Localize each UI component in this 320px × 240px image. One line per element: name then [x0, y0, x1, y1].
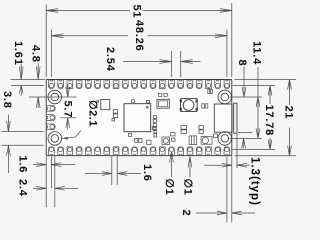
svg-text:21: 21 — [283, 106, 295, 120]
mounting hole bottom-right — [218, 132, 232, 146]
dim 11.4 line+arrows — [257, 67, 259, 97]
svg-text:3.8: 3.8 — [1, 91, 13, 109]
dim 5.7 upper arrow — [67, 85, 69, 87]
dim 3.8 line1 — [2, 131, 44, 133]
dim 51: board length, extension lines — [45, 5, 47, 78]
BOOTSEL button — [180, 100, 198, 111]
label dia-2.1 leader w/ filled arrow — [62, 137, 68, 140]
mounting hole bottom-left — [48, 132, 62, 146]
svg-text:17.78: 17.78 — [263, 105, 275, 137]
mounting hole top-left — [48, 90, 62, 104]
dim 21 line+arrows — [288, 80, 292, 90]
usb-bottom extension — [238, 132, 252, 134]
dim 2 line+arrows — [196, 212, 217, 214]
svg-text:8: 8 — [236, 60, 248, 67]
svg-text:1.6: 1.6 — [17, 156, 29, 174]
svg-text:51: 51 — [130, 5, 142, 19]
label dia-1 #2 leader (castellation) — [188, 156, 192, 167]
dim 3.8 upper arrow — [7, 115, 9, 122]
dim 5.7 lower arrow — [66, 118, 70, 128]
small passives — [112, 90, 218, 145]
RP2040 pin-1 dot — [146, 106, 148, 108]
dim 5.7 tick line (middle debug pad) — [61, 117, 77, 119]
top pin pads row (20 castellated pads) — [49, 80, 230, 89]
dim 1.6 middle arrows — [85, 173, 102, 175]
dim 2.54: pitch extension lines — [170, 51, 172, 77]
dim 48.26: pin-span extension lines — [50, 30, 52, 78]
svg-text:2.4: 2.4 — [17, 179, 29, 197]
svg-text:1.3(typ): 1.3(typ) — [248, 157, 260, 206]
svg-text:4.8: 4.8 — [30, 45, 42, 63]
USB connector end cap (overhang) — [234, 103, 237, 133]
label dia-1 #1 leader (through hole) — [170, 152, 174, 163]
mounting hole top-right — [218, 90, 232, 104]
dim 17.78: pin-line extensions right — [233, 85, 276, 87]
svg-text:∅1: ∅1 — [182, 179, 194, 196]
dim 1.6 left: ext lines below — [45, 156, 47, 207]
dim 11.4: hole lines extensions — [230, 96, 263, 98]
tiny marks above crystal — [158, 93, 162, 96]
dim 8 (usb) leader+arrow — [243, 67, 245, 88]
tiny mark left of flash — [97, 100, 99, 102]
svg-text:∅2.1: ∅2.1 — [86, 100, 98, 127]
dim 17.78 line+arrows — [268, 86, 272, 96]
dim 2: last pin ext below — [226, 157, 228, 223]
svg-text:∅1: ∅1 — [163, 179, 175, 196]
dim 4.8: edge-to-hole arrows — [29, 96, 77, 98]
dim 1.61: edge-to-pinline ext lines — [11, 79, 46, 81]
svg-text:1.61: 1.61 — [12, 41, 24, 66]
dim 21: board edge extensions right — [235, 79, 297, 81]
RP2040 chip — [124, 104, 151, 132]
crystal — [157, 99, 169, 108]
dim 1.3 line+arrows — [204, 164, 222, 166]
dim 2.54 line+arrows — [123, 61, 171, 63]
dim 3.8 lower arrow — [7, 145, 11, 156]
svg-text:2: 2 — [180, 210, 192, 217]
dim 48.26 line+arrows — [51, 35, 128, 37]
dim 1.6 left arrows — [33, 164, 36, 166]
dim 2.4: hole-x ext below — [54, 156, 56, 207]
board outline (Raspberry Pi Pico PCB 51x21) — [46, 80, 232, 156]
svg-text:48.26: 48.26 — [133, 20, 145, 52]
flash chip — [101, 100, 110, 110]
dim 3.8 line2 — [2, 144, 44, 146]
dim 2.4 arrows — [33, 187, 36, 189]
bottom pin pads row (20 castellated pads) — [49, 147, 230, 156]
svg-text:11.4: 11.4 — [251, 41, 263, 65]
svg-text:2.54: 2.54 — [104, 47, 116, 72]
dim 51 line+arrows — [46, 10, 130, 12]
dim 1.6 middle: pad width ext lines — [111, 156, 113, 185]
USB micro-B connector body — [214, 104, 232, 132]
svg-text:5.7: 5.7 — [62, 101, 74, 119]
dim 1.61 arrows — [19, 67, 23, 80]
dim 1.3(typ): board edge & usb cap ext below — [231, 156, 233, 222]
left edge debug pads (3 SWD pads) — [46, 105, 55, 129]
svg-text:1.6: 1.6 — [141, 164, 153, 182]
